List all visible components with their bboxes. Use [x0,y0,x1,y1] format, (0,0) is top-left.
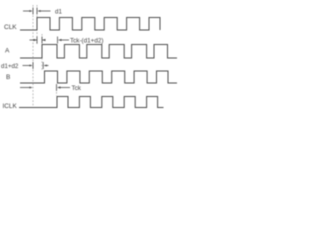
svg-text:Tck-(d1+d2): Tck-(d1+d2) [70,37,103,44]
svg-text:ICLK: ICLK [3,103,18,110]
svg-text:d1: d1 [55,8,62,15]
svg-text:A: A [5,48,10,55]
dimension d1+d2 arrows [23,62,49,69]
node dashed line x=33 [32,5,34,107]
node dashed line x=37 [36,5,38,44]
svg-text:B: B [6,74,10,81]
dimension Tck arrows [20,84,70,96]
dimension Tck-(d1+d2) arrow [58,37,70,44]
wire A waveform [20,45,177,59]
svg-text:d1+d2: d1+d2 [1,63,19,70]
wire ICLK waveform [19,97,164,108]
wire B waveform [20,71,177,83]
dimension d2 bars and arrows between x=37 and x=42 [30,37,46,44]
svg-text:Tck: Tck [72,85,82,92]
node dashed line x=42 [41,34,43,71]
dimension d1 arrows [23,8,51,15]
svg-text:CLK: CLK [4,24,17,31]
wire CLK waveform [20,18,160,31]
